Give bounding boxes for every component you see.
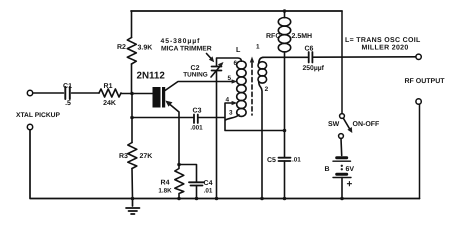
- svg-text:MICA TRIMMER: MICA TRIMMER: [161, 46, 212, 53]
- node C5 rail junction: [283, 197, 287, 201]
- svg-text:R4: R4: [161, 180, 170, 187]
- wire pin 3 curl: [225, 115, 239, 120]
- wire top rail: [131, 10, 342, 12]
- svg-text:.001: .001: [190, 125, 203, 132]
- node R4 rail junction: [177, 197, 181, 201]
- wire pin6 top lead: [217, 58, 242, 66]
- wire collector to tap 5: [165, 82, 233, 91]
- wire C2 down to ground rail: [216, 71, 218, 199]
- node C2 rail junction: [215, 197, 219, 201]
- terminal RF output bottom: [416, 99, 421, 104]
- wire RF bottom terminal down right side: [419, 104, 421, 198]
- node base junction: [130, 92, 134, 96]
- svg-text:.01: .01: [204, 188, 213, 195]
- wire C3 line left: [132, 117, 193, 119]
- svg-text:B: B: [325, 166, 330, 173]
- terminal J2 xtal pickup bottom: [27, 124, 32, 129]
- node tap4 line RFC C5 junction: [283, 129, 287, 133]
- wire C1 to R1: [72, 92, 100, 94]
- capacitor C3: [194, 115, 198, 124]
- wire switch to battery: [340, 139, 343, 156]
- wire R1 to base node: [121, 93, 153, 95]
- svg-text:27K: 27K: [140, 153, 153, 160]
- wire C5 bottom lead: [284, 161, 286, 199]
- svg-text:.01: .01: [292, 157, 301, 164]
- wire C6 to RF output terminal: [314, 56, 416, 58]
- node C4 rail junction: [195, 197, 199, 201]
- wire C3 tee down to R3: [131, 118, 133, 143]
- svg-text:2.5MH: 2.5MH: [292, 33, 313, 40]
- node RFC top rail junction: [283, 9, 287, 13]
- inductor RFC: [278, 11, 290, 52]
- svg-text:3: 3: [229, 110, 233, 117]
- node pin2 rail junction: [260, 197, 264, 201]
- arrow C2 variable: [211, 65, 222, 78]
- svg-text:5: 5: [228, 75, 232, 82]
- capacitor C4: [189, 182, 204, 185]
- svg-text:.5: .5: [65, 100, 71, 107]
- svg-text:R3: R3: [119, 153, 128, 160]
- wire tap4 node down to C5: [284, 131, 286, 158]
- node battery rail junction: [340, 197, 344, 201]
- svg-text:RF OUTPUT: RF OUTPUT: [405, 78, 446, 85]
- wire R2 top lead: [131, 11, 133, 38]
- node emitter R4 C4 tee: [177, 163, 181, 167]
- inductor L primary winding: [237, 61, 246, 116]
- transistor Q1 2N112: [153, 87, 166, 108]
- svg-text:ON-OFF: ON-OFF: [353, 121, 381, 128]
- svg-text:SW: SW: [328, 121, 340, 128]
- resistor R4: [175, 165, 184, 199]
- terminal RF output top: [416, 54, 421, 59]
- svg-text:MILLER 2020: MILLER 2020: [362, 45, 409, 52]
- arrow label mica trimmer pointer: [207, 54, 213, 60]
- svg-text:1: 1: [256, 44, 260, 51]
- svg-text:C1: C1: [63, 83, 72, 90]
- capacitor C6: [309, 52, 313, 63]
- wire output link line to C6: [263, 56, 308, 58]
- svg-text:24K: 24K: [103, 100, 116, 107]
- wire C4 bottom lead: [196, 186, 198, 199]
- svg-text:L: L: [236, 45, 241, 54]
- node R3 rail junction: [131, 197, 135, 201]
- svg-text:R1: R1: [104, 83, 113, 90]
- svg-text:1.8K: 1.8K: [158, 188, 172, 195]
- wire tap 4 bracket to RFC node: [225, 103, 285, 131]
- wire J2 down and bottom rail: [30, 130, 420, 199]
- wire J1 to C1: [33, 92, 64, 94]
- pin arrow emitter Q1: [165, 101, 172, 107]
- pin arrow tap 4: [232, 101, 238, 105]
- wire emitter diagonal and down: [167, 102, 179, 165]
- svg-text:RFC: RFC: [266, 33, 280, 40]
- inductor L secondary winding: [258, 62, 267, 83]
- svg-text:TUNING: TUNING: [183, 72, 208, 79]
- svg-text:250µµf: 250µµf: [303, 65, 325, 72]
- capacitor C2 trimmer: [212, 67, 222, 71]
- svg-text:2N112: 2N112: [137, 71, 166, 82]
- svg-text:45-380µµf: 45-380µµf: [161, 38, 201, 45]
- core dashed adjustable: [251, 63, 253, 115]
- pin arrow tap 5: [232, 79, 238, 83]
- svg-text:C4: C4: [204, 180, 213, 187]
- ground: [126, 199, 140, 215]
- wire C3 line right to tap4 line: [199, 117, 225, 119]
- wire RFC bottom down to tap4 node: [284, 52, 286, 131]
- wire R2 bottom lead: [131, 64, 133, 94]
- wire rail right corner down to switch: [341, 11, 343, 114]
- svg-text:3.9K: 3.9K: [138, 45, 153, 52]
- wire R3 bottom lead: [131, 169, 134, 199]
- svg-text:C5: C5: [267, 157, 276, 164]
- svg-text:2: 2: [265, 86, 269, 93]
- battery B: [333, 158, 351, 178]
- svg-text:+: +: [347, 179, 353, 190]
- switch SW: [340, 114, 345, 119]
- resistor R3: [128, 143, 137, 169]
- svg-text:4: 4: [226, 97, 230, 104]
- svg-text:C3: C3: [193, 108, 202, 115]
- node C3 tee junction: [130, 116, 134, 120]
- resistor R1: [99, 89, 121, 97]
- wire base node down to C3 tee: [131, 94, 133, 118]
- wire pin2 lead down to rail: [259, 82, 262, 199]
- svg-text:XTAL PICKUP: XTAL PICKUP: [16, 112, 61, 119]
- capacitor C1: [65, 87, 70, 99]
- wire emitter node to C4: [179, 165, 197, 182]
- svg-text:L= TRANS OSC COIL: L= TRANS OSC COIL: [345, 37, 421, 44]
- svg-text:C6: C6: [305, 46, 314, 53]
- terminal J1 xtal pickup top: [27, 90, 32, 95]
- wire battery to rail: [341, 178, 343, 199]
- svg-text:6V: 6V: [346, 166, 355, 173]
- capacitor C5: [279, 158, 291, 161]
- resistor R2: [127, 38, 136, 65]
- svg-text:R2: R2: [117, 44, 126, 51]
- wire pin1 lead up: [259, 57, 264, 63]
- svg-text:6: 6: [234, 60, 238, 67]
